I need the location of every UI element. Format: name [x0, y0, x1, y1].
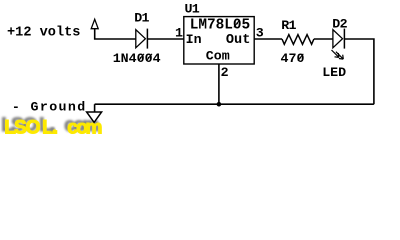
- wire U1 pin 2 to ground: [218, 64, 220, 104]
- svg-text:1N4004: 1N4004: [113, 51, 161, 66]
- svg-text:- Ground: - Ground: [12, 100, 87, 115]
- svg-text:2: 2: [221, 65, 229, 80]
- svg-text:1: 1: [175, 25, 183, 40]
- svg-text:470: 470: [281, 51, 305, 66]
- wire input stub to D1: [95, 29, 136, 39]
- slashed zeros of 1N4004: [139, 54, 152, 61]
- svg-text:D2: D2: [332, 17, 347, 32]
- ground wire: [95, 103, 374, 105]
- LSOL.com watermark logo: [1, 115, 102, 139]
- svg-text:+12 volts: +12 volts: [7, 26, 80, 41]
- svg-text:D1: D1: [134, 10, 149, 25]
- power input terminal: [91, 19, 98, 28]
- wire D2 to right corner down: [344, 39, 374, 104]
- svg-text:Com: Com: [206, 49, 230, 64]
- junction dot: [217, 102, 222, 107]
- LED light arrows: [332, 50, 344, 59]
- svg-text:R1: R1: [281, 18, 296, 33]
- resistor R1: [282, 35, 314, 45]
- slashed zero of 470: [298, 54, 303, 61]
- wire R1 to D2: [314, 38, 333, 40]
- svg-text:U1: U1: [185, 2, 200, 17]
- wire D1 to U1 pin 1: [147, 38, 183, 40]
- svg-text:In: In: [186, 32, 202, 47]
- ground terminal stub: [94, 104, 96, 112]
- slashed zero of LM78L05: [234, 20, 240, 27]
- LED D2: [333, 29, 345, 49]
- ground terminal: [87, 112, 102, 122]
- svg-text:LED: LED: [322, 65, 346, 80]
- wire U1 pin 3 to R1: [254, 38, 282, 40]
- svg-text:Out: Out: [226, 33, 250, 48]
- diode D1: [136, 29, 148, 49]
- IC U1 box: [184, 17, 254, 64]
- logo period dot: [50, 127, 56, 133]
